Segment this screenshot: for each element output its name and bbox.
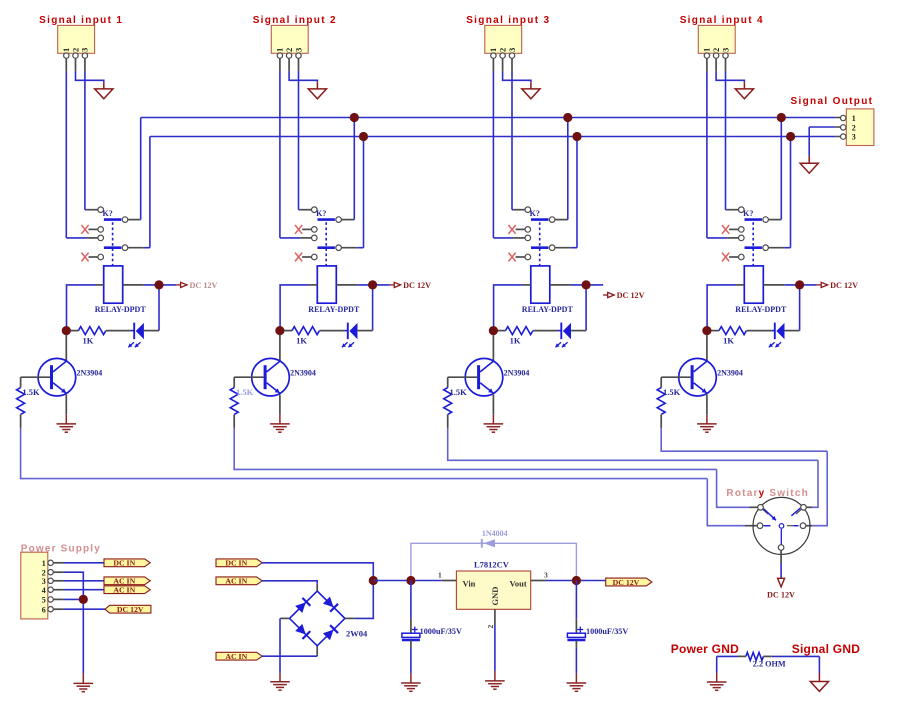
svg-text:Power GND: Power GND: [671, 642, 739, 656]
svg-text:1000uF/35V: 1000uF/35V: [586, 627, 628, 636]
svg-text:1: 1: [438, 570, 442, 579]
svg-text:AC IN: AC IN: [113, 577, 135, 586]
svg-text:AC IN: AC IN: [113, 586, 135, 595]
svg-text:3: 3: [293, 48, 303, 52]
svg-text:K?: K?: [103, 209, 113, 218]
svg-text:1: 1: [42, 559, 46, 568]
svg-text:L7812CV: L7812CV: [474, 560, 510, 570]
svg-text:DC 12V: DC 12V: [617, 291, 645, 300]
svg-text:2N3904: 2N3904: [717, 369, 743, 378]
svg-text:GND: GND: [490, 587, 500, 606]
svg-text:K?: K?: [316, 209, 326, 218]
svg-text:DC 12V: DC 12V: [613, 578, 640, 587]
svg-text:2: 2: [486, 625, 495, 629]
svg-text:RELAY-DPDT: RELAY-DPDT: [95, 305, 147, 314]
svg-text:DC IN: DC IN: [113, 559, 135, 568]
svg-text:1N4004: 1N4004: [482, 529, 508, 538]
svg-text:K?: K?: [743, 209, 753, 218]
svg-text:Signal input 2: Signal input 2: [253, 15, 337, 26]
svg-text:DC 12V: DC 12V: [767, 591, 795, 600]
svg-text:2N3904: 2N3904: [290, 369, 316, 378]
svg-text:DC 12V: DC 12V: [830, 281, 858, 290]
svg-text:Signal Output: Signal Output: [791, 96, 874, 107]
svg-text:1000uF/35V: 1000uF/35V: [420, 627, 462, 636]
svg-text:AC IN: AC IN: [225, 577, 247, 586]
svg-text:K?: K?: [530, 209, 540, 218]
svg-text:Vout: Vout: [510, 578, 527, 588]
svg-text:2W04: 2W04: [346, 629, 368, 639]
svg-text:3: 3: [852, 133, 856, 142]
svg-text:2N3904: 2N3904: [504, 369, 530, 378]
svg-text:1.5K: 1.5K: [450, 387, 468, 397]
svg-text:DC 12V: DC 12V: [117, 605, 144, 614]
svg-text:1K: 1K: [723, 336, 734, 346]
svg-text:RELAY-DPDT: RELAY-DPDT: [735, 305, 787, 314]
svg-text:DC IN: DC IN: [225, 559, 247, 568]
svg-text:1: 1: [852, 114, 856, 123]
svg-text:1K: 1K: [510, 336, 521, 346]
svg-text:Signal input 1: Signal input 1: [39, 15, 123, 26]
svg-text:5: 5: [42, 596, 46, 605]
svg-text:Vin: Vin: [463, 578, 476, 588]
svg-text:2N3904: 2N3904: [77, 369, 103, 378]
svg-text:1.5K: 1.5K: [22, 387, 40, 397]
svg-text:DC 12V: DC 12V: [403, 281, 431, 290]
svg-text:Signal input 3: Signal input 3: [466, 15, 550, 26]
svg-text:4: 4: [42, 586, 46, 595]
svg-text:3: 3: [80, 48, 90, 52]
svg-text:Rotary Switch: Rotary Switch: [726, 488, 809, 499]
svg-text:3: 3: [507, 48, 517, 52]
svg-text:AC IN: AC IN: [225, 652, 247, 661]
svg-text:1K: 1K: [83, 336, 94, 346]
svg-text:1.5K: 1.5K: [236, 387, 254, 397]
svg-text:DC 12V: DC 12V: [190, 281, 218, 290]
svg-text:3: 3: [42, 577, 46, 586]
svg-text:2: 2: [852, 124, 856, 133]
svg-text:1.5K: 1.5K: [663, 387, 681, 397]
svg-text:6: 6: [42, 605, 46, 614]
svg-text:3: 3: [720, 48, 730, 52]
svg-text:Signal input 4: Signal input 4: [680, 15, 764, 26]
svg-text:1K: 1K: [296, 336, 307, 346]
svg-text:RELAY-DPDT: RELAY-DPDT: [308, 305, 360, 314]
svg-text:2.2 OHM: 2.2 OHM: [753, 659, 786, 668]
svg-text:3: 3: [544, 570, 548, 579]
svg-text:Signal GND: Signal GND: [792, 642, 861, 656]
svg-text:RELAY-DPDT: RELAY-DPDT: [522, 305, 574, 314]
